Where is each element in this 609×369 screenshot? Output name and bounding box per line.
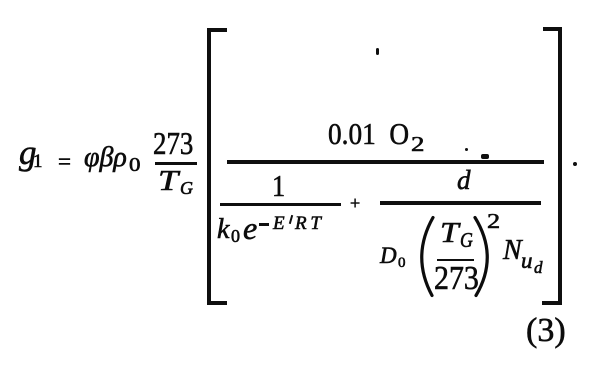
dot above bar [465, 148, 468, 151]
fraction 273 over TG numerator [153, 127, 193, 159]
stray speck top [376, 48, 379, 55]
big left paren [414, 212, 438, 302]
symbol g1 [19, 135, 37, 170]
main numerator 0.01 O2 [328, 118, 409, 149]
inner fraction TG over 273 [440, 220, 459, 248]
phi beta rho0 [84, 144, 127, 172]
main fraction bar [227, 160, 544, 164]
right subfraction bar [380, 201, 541, 205]
left subfraction numerator 1 [272, 170, 285, 201]
equation number (3) [526, 314, 566, 348]
right bracket [558, 27, 563, 305]
fraction 273 over TG bar [155, 162, 197, 165]
big right paren [470, 212, 494, 302]
fraction 273 over TG denominator TG [158, 167, 178, 196]
period after bracket [573, 162, 577, 166]
D0 [380, 244, 397, 267]
superscript 2 [487, 211, 500, 232]
smudge on bar [481, 154, 489, 159]
plus sign [350, 194, 360, 212]
right subfraction numerator d [457, 167, 471, 194]
left bracket [207, 28, 211, 305]
N u d [503, 237, 522, 265]
left subfraction bar [220, 203, 341, 206]
left subfraction denominator k0 e^-E/RT [217, 216, 229, 244]
equals sign [58, 150, 71, 173]
